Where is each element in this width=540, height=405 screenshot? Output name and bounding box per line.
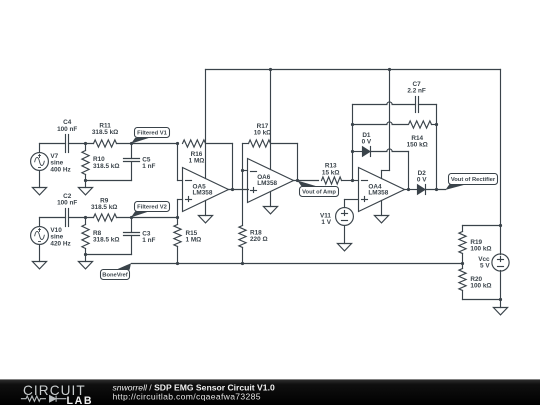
svg-text:100 nF: 100 nF [57, 200, 77, 207]
voltage source V10 sine 420 Hz [31, 227, 49, 245]
wire OA4 output [405, 189, 418, 191]
wire OA5 output [229, 189, 249, 191]
svg-text:1 MΩ: 1 MΩ [189, 158, 205, 165]
svg-text:Vout of Amp: Vout of Amp [302, 190, 336, 196]
node Filtered V2 [130, 216, 133, 219]
svg-text:1 V: 1 V [321, 219, 331, 226]
svg-text:100 kΩ: 100 kΩ [470, 245, 491, 252]
svg-text:318.5 kΩ: 318.5 kΩ [93, 163, 119, 170]
svg-text:0 V: 0 V [362, 139, 372, 146]
OA6 V- to ground [270, 192, 272, 207]
node OA4 inverting input [351, 179, 354, 182]
svg-text:Vout of Rectifier: Vout of Rectifier [451, 177, 496, 183]
ground under V11 [344, 226, 346, 244]
wire R20 bottom [463, 299, 501, 301]
capacitor C4 100 nF [65, 135, 67, 153]
flag BoneVref [116, 263, 131, 270]
ground under R10 [85, 181, 87, 188]
wire R16 to OA5 output [232, 144, 234, 190]
wire C3 bottom to ground node [86, 254, 132, 256]
svg-text:Filtered V1: Filtered V1 [137, 131, 167, 137]
resistor R13 15 k [322, 177, 342, 184]
wire V10 to C2 [40, 217, 66, 219]
footer bar [0, 379, 540, 405]
svg-text:1 nF: 1 nF [142, 163, 155, 170]
svg-text:400 Hz: 400 Hz [50, 166, 70, 173]
flag Filtered V1 [131, 138, 150, 144]
wire R9 to OA5 [117, 217, 178, 219]
OA5 V+ to rail [205, 70, 207, 179]
wire Vcc bottom [500, 271, 502, 308]
resistor R14 150 k [353, 122, 408, 125]
OA4 V+ to rail with jog [389, 70, 391, 171]
node R10 bottom [84, 179, 87, 182]
wire C2 to R9 [69, 217, 94, 219]
wire Vcc to R19 [463, 225, 501, 227]
node V7hp junction [84, 142, 87, 145]
wire feedback left vertical [352, 105, 354, 181]
svg-text:BoneVref: BoneVref [102, 273, 128, 279]
resistor R18 220 [242, 171, 244, 226]
resistor R9 318.5 k [94, 214, 117, 221]
op-amp OA4 LM358 [359, 168, 405, 212]
wire OA5 noninverting input [178, 199, 183, 201]
capacitor C3 1 nF [131, 218, 133, 233]
resistor R8 318.5 k [85, 218, 87, 225]
wire BoneVref rail [132, 263, 463, 265]
svg-text:100 nF: 100 nF [57, 126, 77, 133]
op-amp OA6 LM358 [248, 159, 294, 203]
node R18 bottom [241, 262, 244, 265]
wire C4 to R11 [69, 143, 94, 145]
resistor R19 100 k [462, 226, 464, 232]
resistor R11 318.5 k [94, 140, 117, 147]
wire V7 to C4 [40, 143, 66, 145]
resistor R15 1 M [177, 218, 179, 225]
svg-text:150 kΩ: 150 kΩ [407, 141, 428, 148]
voltage source V11 1 V [345, 199, 359, 201]
svg-text:100 kΩ: 100 kΩ [470, 283, 491, 290]
svg-text:LM358: LM358 [368, 190, 388, 197]
diode D1 [353, 151, 363, 153]
wire feedback right vertical [436, 105, 438, 190]
node Filtered V1 [130, 142, 133, 145]
wire R17 to OA6 output [297, 144, 299, 181]
svg-text:LM358: LM358 [257, 180, 277, 187]
wire Vcc top rail [206, 69, 501, 71]
wire C5 bottom to ground node [86, 180, 132, 182]
OA5 V- to ground [205, 201, 207, 216]
wire D1 cathode to output [408, 152, 410, 190]
svg-text:1 MΩ: 1 MΩ [186, 236, 202, 243]
flag Vout of Rectifier [445, 184, 467, 190]
svg-text:318.5 kΩ: 318.5 kΩ [92, 129, 118, 136]
node V10hp junction [84, 216, 87, 219]
svg-text:1 nF: 1 nF [142, 237, 155, 244]
svg-text:10 kΩ: 10 kΩ [254, 130, 272, 137]
wire FilteredV1 node to OA5 inverting input [176, 142, 179, 145]
wire R11 to OA5 [117, 143, 178, 145]
svg-text:LAB: LAB [67, 395, 94, 405]
svg-text:318.5 kΩ: 318.5 kΩ [91, 204, 117, 211]
svg-text:318.5 kΩ: 318.5 kΩ [93, 237, 119, 244]
ground under Vcc [493, 308, 507, 315]
svg-text:15 kΩ: 15 kΩ [322, 169, 340, 176]
node R8 bottom [84, 253, 87, 256]
capacitor C2 100 nF [65, 209, 67, 227]
svg-text:LM358: LM358 [193, 190, 213, 197]
svg-text:220 Ω: 220 Ω [250, 236, 268, 243]
ground under V10 [39, 245, 41, 262]
svg-text:0 V: 0 V [417, 177, 427, 184]
voltage source Vcc 5 V [492, 254, 509, 271]
flag Vout of Amp [297, 181, 316, 187]
node R15 bottom [176, 262, 179, 265]
wire OA6 inverting input [243, 170, 248, 172]
ground under V7 [39, 171, 41, 188]
OA6 V+ to rail [270, 70, 272, 170]
svg-text:420 Hz: 420 Hz [50, 240, 70, 247]
ground under R8 [85, 255, 87, 262]
resistor R17 10 k feedback [243, 143, 249, 145]
OA4 V- to ground [381, 201, 383, 216]
resistor R16 1 M feedback [183, 140, 206, 147]
svg-text:http://circuitlab.com/cqaeafwa: http://circuitlab.com/cqaeafwa73285 [113, 392, 261, 402]
resistor R20 100 k [462, 264, 464, 269]
wire rail right down [500, 70, 502, 255]
svg-text:5 V: 5 V [480, 263, 490, 270]
flag Filtered V2 [131, 211, 150, 217]
wire OA6 output [294, 180, 319, 182]
capacitor C5 1 nF [131, 144, 133, 159]
capacitor C7 2.2 nF [353, 102, 416, 105]
logo squiggle resistor and diode [21, 396, 66, 402]
svg-text:2.2 nF: 2.2 nF [407, 88, 426, 95]
diode D2 [418, 185, 425, 194]
node divider mid [461, 262, 464, 265]
resistor R10 318.5 k [85, 144, 87, 151]
voltage source V7 sine 400 Hz [31, 153, 49, 171]
svg-text:Filtered V2: Filtered V2 [137, 205, 167, 211]
op-amp OA5 LM358 [183, 168, 229, 212]
